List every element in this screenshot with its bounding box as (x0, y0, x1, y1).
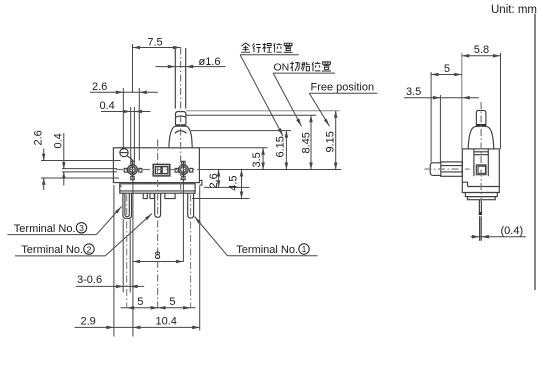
side terminal upper (479, 200, 481, 215)
label leader full stroke (240, 54, 299, 56)
dim 6.15 vertical (285, 131, 287, 170)
dim 0.4 top line (101, 111, 150, 113)
svg-text:6.15: 6.15 (275, 136, 287, 157)
terminal 2 (middle) (155, 193, 161, 217)
svg-text:2.6: 2.6 (208, 173, 220, 188)
dim (0.4) line (471, 236, 526, 238)
label leader free position (309, 92, 377, 94)
leader terminal 1 (228, 255, 318, 257)
boss horizontal center line (116, 169, 199, 171)
extension body right bottom (199, 186, 201, 331)
pin cap (176, 112, 186, 125)
dim 2.6 left vertical (43, 149, 45, 161)
side pin base line (476, 124, 486, 126)
base band inner line (120, 190, 195, 192)
circled digit 2 (84, 244, 94, 254)
svg-text:2.6: 2.6 (92, 81, 107, 93)
right boss center tick (182, 162, 184, 178)
label zen-koutei-ichi (241, 43, 292, 53)
svg-text:3.5: 3.5 (406, 86, 421, 98)
svg-text:5: 5 (444, 63, 450, 75)
dim 3.5 side line (404, 97, 479, 99)
foot tab 1 (143, 193, 147, 198)
svg-text:Unit: mm: Unit: mm (491, 4, 537, 16)
svg-text:3.5: 3.5 (251, 152, 263, 167)
side terminal lower (480, 216, 482, 241)
svg-text:2.9: 2.9 (81, 315, 96, 327)
body bottom-right step tab (199, 180, 202, 185)
svg-text:5: 5 (137, 296, 143, 308)
svg-text:5: 5 (169, 296, 175, 308)
ON position line (186, 114, 316, 116)
svg-text:7.5: 7.5 (147, 37, 162, 49)
svg-text:Terminal No.: Terminal No. (14, 223, 76, 235)
center line vertical of body (157, 140, 159, 310)
left boss right tab (139, 168, 142, 172)
side channel top line 2 (474, 154, 488, 156)
side arm inner line 2 (441, 171, 462, 173)
page border right (534, 14, 536, 291)
full stroke line (191, 130, 291, 132)
dim 4.5 right vertical (241, 170, 243, 199)
side arm center line (425, 168, 470, 170)
svg-text:10.4: 10.4 (156, 315, 177, 327)
svg-text:Terminal No.: Terminal No. (21, 244, 83, 256)
baseline extension (199, 169, 341, 171)
corner hole circle (120, 149, 128, 157)
corner hole slot line (119, 152, 128, 154)
dim 5 side line (431, 74, 462, 76)
right boss left tab (175, 168, 178, 172)
svg-text:1: 1 (302, 244, 307, 254)
terminal 1 center line (190, 195, 192, 309)
side dome (468, 126, 494, 149)
circled digit 1 (299, 244, 309, 254)
svg-text:5.8: 5.8 (474, 44, 489, 56)
extension boss center bottom (132, 178, 134, 337)
dim 5-5 line (121, 307, 196, 309)
pin center line (180, 48, 182, 194)
window pane right (162, 167, 168, 174)
svg-text:2: 2 (87, 244, 92, 254)
side body notch (462, 182, 467, 186)
svg-text:(0.4): (0.4) (501, 225, 524, 237)
svg-text:4.5: 4.5 (228, 176, 240, 191)
dome outline (169, 125, 192, 147)
side channel top line 1 (474, 151, 488, 153)
svg-text:2.6: 2.6 (33, 130, 45, 145)
base band left step (120, 184, 122, 186)
svg-text:3-0.6: 3-0.6 (77, 274, 102, 286)
svg-text:0.4: 0.4 (100, 100, 115, 112)
side arm cap (430, 163, 441, 176)
svg-text:0.4: 0.4 (53, 133, 65, 148)
left boss inner circle (130, 167, 136, 173)
side window inner (478, 166, 486, 173)
svg-text:Free position: Free position (311, 82, 375, 94)
svg-text:Terminal No.: Terminal No. (236, 244, 298, 256)
foot tab 2 (150, 193, 154, 198)
side base band 1 (465, 193, 497, 197)
side body inner channel right (487, 149, 489, 176)
dim 2.9 and 10.4 line (75, 326, 200, 328)
svg-text:8.45: 8.45 (300, 132, 312, 153)
extension body left bottom (113, 185, 115, 337)
terminal 1 (right) (188, 193, 194, 218)
side body parting line (468, 186, 500, 188)
plunger pin right edge (185, 48, 187, 109)
dim o1.6 line (156, 66, 226, 68)
side window outer (476, 165, 486, 175)
dim 9.15 vertical (335, 111, 337, 170)
terminal 3 center line (126, 195, 128, 309)
right boss bottom tab (182, 176, 185, 180)
right boss ring (179, 165, 189, 175)
dim 7.5 line (133, 47, 181, 49)
side base band 2 (468, 197, 496, 200)
leader terminal 3 (8, 234, 97, 236)
svg-text:9.15: 9.15 (325, 131, 337, 152)
label leader ON initial (273, 72, 335, 74)
dim 2.6 top line (90, 91, 158, 93)
free position line (186, 110, 340, 112)
window pane left (155, 167, 161, 174)
pin cap inner arc (176, 116, 186, 117)
dim 3-0.6 line (76, 285, 144, 287)
side view body (462, 149, 499, 193)
dome inner arc (175, 131, 187, 134)
svg-text:8: 8 (154, 250, 160, 262)
side body inner channel left (473, 149, 475, 176)
terminal 3 (left) outer (123, 193, 132, 218)
dim 0.4 left vertical (63, 133, 65, 169)
left boss bottom tab (131, 176, 134, 180)
circled digit 3 (76, 223, 86, 233)
side terminal crimp blob (479, 212, 482, 215)
left boss top tab (131, 161, 134, 165)
base band (120, 184, 195, 193)
side arm inner line 1 (441, 165, 462, 167)
left boss center tick (132, 162, 134, 178)
left boss left tab (124, 168, 127, 172)
dim 2.6 right vertical (218, 170, 220, 188)
svg-text:ON: ON (274, 62, 290, 74)
svg-text:3: 3 (79, 223, 84, 233)
dim 5.8 line (462, 55, 501, 57)
right boss right tab (190, 168, 193, 172)
dome shoulder dark line (175, 124, 186, 126)
plunger pin left edge (174, 48, 176, 109)
left boss ring (128, 165, 138, 175)
dim 3.5 vertical (262, 148, 264, 170)
body top extension (199, 147, 267, 149)
right boss inner circle (181, 167, 187, 173)
side pin (476, 110, 486, 125)
dim 8 line (133, 261, 184, 263)
foot tab 3 (165, 193, 175, 198)
right boss top tab (182, 161, 185, 165)
window outer (153, 164, 170, 176)
leader terminal 2 (15, 255, 105, 257)
dim 8.45 vertical (310, 115, 312, 169)
side vertical center line (480, 102, 482, 210)
lever arc from hole to boss (127, 156, 133, 162)
side arm (441, 162, 463, 176)
front view switch body (113, 148, 199, 183)
svg-text:ø1.6: ø1.6 (199, 56, 221, 68)
terminal 3 inner wall (125, 193, 129, 216)
